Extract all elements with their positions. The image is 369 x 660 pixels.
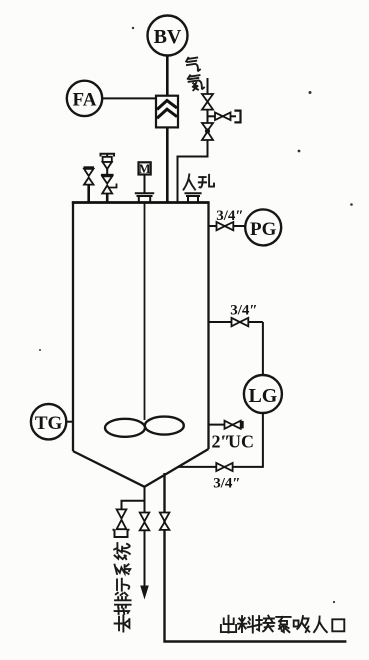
svg-text:M: M	[138, 161, 150, 176]
wire tee branch right	[208, 115, 217, 117]
svg-text:LG: LG	[248, 385, 277, 407]
manhole nozzle	[185, 193, 202, 201]
valve V1 on nitrogen line	[202, 94, 213, 110]
valve V7 LG bottom	[216, 463, 232, 471]
tank vessel	[72, 203, 210, 487]
label manhole 人孔	[184, 174, 214, 189]
wire to cap	[231, 115, 237, 117]
wire tank to LG top	[209, 321, 263, 323]
wire LG vertical upper	[262, 322, 264, 375]
shaft flange	[135, 193, 154, 201]
wire 2 inch UC	[209, 424, 241, 426]
valve V3 on nitrogen line	[202, 123, 213, 140]
motor M	[138, 161, 150, 176]
char 出	[221, 616, 236, 633]
blowdown line	[144, 487, 146, 588]
char 吸	[294, 616, 310, 632]
instrument TG	[31, 404, 66, 439]
instrument FA	[67, 81, 102, 116]
instrument LG	[244, 375, 282, 413]
cap tick UC	[242, 421, 244, 429]
svg-text:FA: FA	[73, 90, 97, 111]
char 入	[314, 617, 327, 633]
arrow blowdown	[140, 586, 149, 600]
svg-text:TG: TG	[35, 413, 63, 434]
wire nitrogen to tank top elbow	[178, 140, 208, 203]
char 去	[115, 616, 130, 632]
valve V6 UC	[225, 421, 241, 429]
char 污	[116, 579, 130, 596]
valve V4 PG line	[217, 222, 234, 230]
char 统	[114, 543, 130, 559]
wire FA to flame arrestor	[102, 97, 156, 99]
valve V8 drain left	[117, 509, 127, 529]
label 出料接泵吸入口	[221, 616, 344, 633]
flame arrestor	[156, 96, 178, 128]
wire flame arrestor to tank top	[166, 127, 169, 202]
svg-text:UC: UC	[228, 432, 254, 452]
label 2"UC	[212, 432, 255, 452]
instrument BV	[148, 16, 188, 56]
speck dots	[39, 27, 353, 603]
impeller blades	[105, 417, 184, 437]
svg-text:BV: BV	[154, 26, 182, 48]
wire LG vertical lower	[262, 413, 264, 468]
valve assembly B safety valve on tank top	[101, 154, 117, 203]
label 去排污系统 vertical	[114, 543, 130, 631]
agitator shaft	[144, 203, 146, 421]
wire valve to tee	[207, 110, 209, 123]
char 接	[256, 616, 274, 632]
nitrogen pipe vertical	[207, 78, 209, 94]
svg-text:3/4″: 3/4″	[230, 303, 257, 319]
char 泵	[276, 617, 290, 632]
char 料	[238, 616, 256, 632]
wire tank to PG	[209, 225, 246, 227]
drain branch left elbow	[122, 487, 145, 510]
svg-text:3/4″: 3/4″	[213, 476, 240, 492]
char 口	[332, 619, 344, 631]
valve V5 LG top	[232, 318, 249, 327]
valve V10 outlet	[160, 513, 170, 530]
outlet line from cone	[165, 473, 347, 642]
label nitrogen 氮气	[185, 56, 204, 91]
agitator shaft upper	[144, 175, 146, 193]
valve V2 branch horizontal	[215, 113, 231, 121]
wire TG to tank	[66, 421, 73, 423]
valve V9 blowdown	[140, 513, 150, 531]
svg-text:3/4″: 3/4″	[216, 208, 243, 224]
cap end bracket	[234, 111, 240, 123]
instrument PG	[245, 209, 281, 245]
wire BV to flame arrestor	[166, 56, 169, 97]
valve assembly A on tank top	[84, 167, 95, 202]
char 排	[115, 597, 131, 614]
drain cup cap	[113, 530, 130, 538]
wire LG bottom to cone	[178, 466, 263, 468]
char 系	[115, 564, 131, 574]
svg-text:PG: PG	[250, 219, 277, 240]
